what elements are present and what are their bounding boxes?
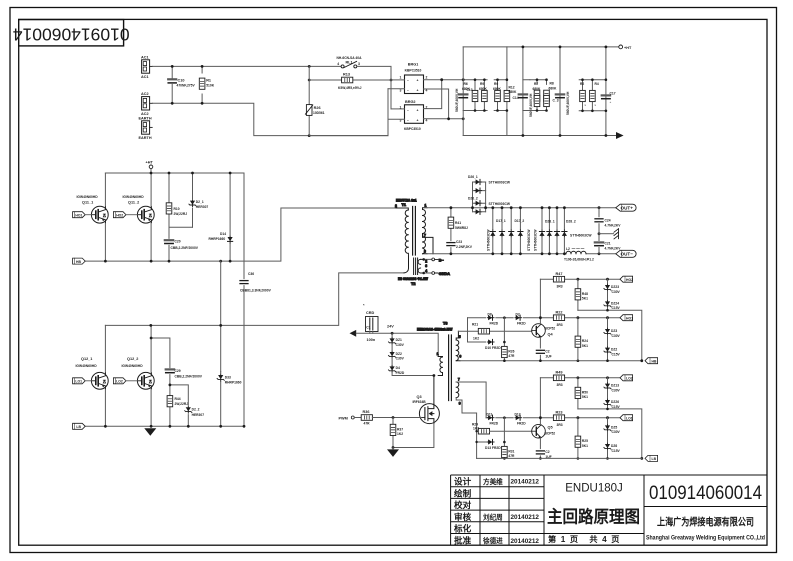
svg-text:010914060014: 010914060014 <box>649 482 762 504</box>
capacitor C24 <box>595 208 621 234</box>
svg-text:Q12_2: Q12_2 <box>127 357 138 361</box>
svg-text:FR2D: FR2D <box>517 422 526 426</box>
varistor R26 <box>305 80 324 136</box>
svg-text:5: 5 <box>459 335 461 339</box>
wire secondary bottom rail <box>427 253 616 255</box>
svg-text:AC1: AC1 <box>141 75 149 79</box>
svg-text:R24: R24 <box>582 339 588 343</box>
svg-text:LB: LB <box>76 425 81 429</box>
svg-text:C30V: C30V <box>612 388 621 392</box>
wire AC2 to bridge pin3 <box>309 89 388 136</box>
zener DZ26 <box>604 390 621 409</box>
svg-text:第 1 页 共 4 页: 第 1 页 共 4 页 <box>548 534 619 544</box>
mosfet Q3 <box>393 374 439 447</box>
IGBT Q12_1 <box>76 325 109 426</box>
resistor R9 <box>479 80 488 111</box>
svg-text:BCP52: BCP52 <box>545 432 556 436</box>
svg-text:DZ13: DZ13 <box>611 384 619 388</box>
wire BRG minus outputs <box>424 89 464 119</box>
svg-text:4.7NF,2KV: 4.7NF,2KV <box>605 223 622 227</box>
svg-text:C29: C29 <box>175 369 181 373</box>
resistor R8 <box>523 80 557 111</box>
diode D13 <box>485 439 501 449</box>
svg-text:R2: R2 <box>580 82 584 86</box>
svg-text:−: − <box>407 118 409 122</box>
svg-text:680K: 680K <box>479 87 488 91</box>
svg-text:STTH6003CW: STTH6003CW <box>534 229 538 251</box>
zener DZ6 <box>604 432 621 460</box>
wire DC rail left <box>462 47 464 136</box>
svg-text:3R3: 3R3 <box>557 284 563 288</box>
current transformer T2 <box>398 253 450 286</box>
svg-text:2: 2 <box>426 76 428 80</box>
svg-text:DZ26: DZ26 <box>611 400 619 404</box>
svg-text:47R: 47R <box>364 422 371 426</box>
svg-text:PWM: PWM <box>339 416 348 420</box>
svg-text:C20: C20 <box>175 240 181 244</box>
svg-text:5K1: 5K1 <box>582 444 588 448</box>
net label 24V <box>387 325 394 335</box>
svg-text:DZ2: DZ2 <box>396 352 402 356</box>
wire relay to bridge <box>357 66 391 109</box>
resistor R6 <box>462 80 478 111</box>
IGBT Q11_2 <box>123 173 155 261</box>
svg-text:D28_1: D28_1 <box>545 220 555 224</box>
wire half-bridge link <box>220 261 222 372</box>
diode D4 <box>389 358 434 375</box>
capacitor C5 <box>536 450 551 460</box>
diode D2_2 <box>170 385 204 426</box>
svg-text:R8: R8 <box>550 82 554 86</box>
svg-text:IRF634B: IRF634B <box>413 400 427 404</box>
svg-text:FR2D: FR2D <box>492 446 501 450</box>
svg-text:D2_1: D2_1 <box>196 200 204 204</box>
svg-text:+: + <box>417 108 419 112</box>
svg-text:D11: D11 <box>487 412 493 416</box>
resistor R10 <box>166 173 187 227</box>
IGBT Q11_1 <box>77 173 109 261</box>
resistor R37 <box>390 416 403 449</box>
wire lower collector rail <box>105 273 404 326</box>
junction dots group4 <box>581 78 607 112</box>
wire HT top rail <box>463 46 619 48</box>
wire BRG1 pin3 stub <box>388 88 405 90</box>
svg-text:LO1: LO1 <box>75 380 82 384</box>
svg-text:HO1: HO1 <box>626 317 633 321</box>
wire DC rail mid1 <box>522 47 524 136</box>
svg-text:47R: 47R <box>508 454 515 458</box>
capacitor C13 <box>455 88 473 112</box>
ground power <box>144 428 156 436</box>
svg-text:AC1: AC1 <box>141 55 149 59</box>
svg-text:1: 1 <box>400 76 402 80</box>
transistor Q5 <box>532 378 556 449</box>
svg-text:R7: R7 <box>534 82 538 86</box>
svg-text:STTH6003CW: STTH6003CW <box>489 202 511 206</box>
output rectifier D28_1 <box>539 208 554 254</box>
svg-text:−: − <box>407 89 409 93</box>
output rectifier D17_1 <box>486 208 506 254</box>
wire group4 buses <box>579 80 606 111</box>
svg-text:CRD: CRD <box>366 311 374 315</box>
junction dots secondary rails <box>450 206 601 255</box>
net flag LO2 gate Q12_2 <box>113 378 137 384</box>
resistor R50 <box>575 376 588 409</box>
svg-text:4: 4 <box>425 269 427 273</box>
svg-text:D26_1: D26_1 <box>468 175 478 179</box>
svg-text:R6: R6 <box>464 82 468 86</box>
svg-text:HO1: HO1 <box>75 213 82 217</box>
bridge rectifier BRG2 <box>400 100 428 131</box>
svg-text:R12: R12 <box>509 86 515 90</box>
resistor R2 <box>580 80 587 111</box>
capacitor C20 <box>165 227 199 261</box>
capacitor C21 <box>595 234 621 254</box>
svg-text:STTH6003CW: STTH6003CW <box>489 181 511 185</box>
diode D11 <box>487 412 499 425</box>
svg-text:审核: 审核 <box>454 511 472 522</box>
svg-text:10D561: 10D561 <box>313 111 325 115</box>
svg-text:EE65T2A 3x1: EE65T2A 3x1 <box>396 199 417 203</box>
svg-text:STTH6003CW: STTH6003CW <box>570 233 592 237</box>
resistor R49 <box>553 370 564 387</box>
svg-text:OUT−: OUT− <box>621 252 634 257</box>
svg-text:2W,22RJ: 2W,22RJ <box>175 402 189 406</box>
title block <box>451 475 767 545</box>
svg-text:D33: D33 <box>225 375 231 379</box>
svg-text:D26_2: D26_2 <box>468 197 478 201</box>
svg-text:6: 6 <box>459 355 461 359</box>
net label PWM <box>339 416 362 420</box>
svg-text:FR2D: FR2D <box>490 422 499 426</box>
svg-text:EE2806A6-4N26x0.5/W: EE2806A6-4N26x0.5/W <box>417 327 453 331</box>
svg-text:LO2: LO2 <box>116 380 123 384</box>
wire lower emitter rail <box>86 425 245 427</box>
zener DZ2b <box>604 335 621 362</box>
output rectifier D17_2 <box>509 208 538 254</box>
svg-text:680K: 680K <box>462 87 471 91</box>
svg-text:R10: R10 <box>174 207 180 211</box>
svg-text:DZ3: DZ3 <box>611 329 617 333</box>
svg-text:5W6R8J: 5W6R8J <box>455 226 468 230</box>
svg-text:C30V: C30V <box>612 334 621 338</box>
svg-text:680K: 680K <box>533 87 542 91</box>
net flag HO2 <box>620 276 633 282</box>
svg-text:20140212: 20140212 <box>511 538 540 545</box>
svg-text:3: 3 <box>424 250 426 254</box>
svg-text:7: 7 <box>458 377 460 381</box>
wire BRG1 pin1 stub <box>391 79 405 81</box>
svg-text:GNDA: GNDA <box>439 272 450 276</box>
arrow 24V feed <box>350 330 357 337</box>
svg-text:Q5: Q5 <box>548 425 553 429</box>
svg-text:R21: R21 <box>472 322 478 326</box>
svg-text:+: + <box>417 79 419 83</box>
resistor R25 <box>575 416 588 458</box>
svg-text:D12: D12 <box>515 412 521 416</box>
svg-text:DZ1: DZ1 <box>396 338 402 342</box>
svg-text:上海广为焊接电源有限公司: 上海广为焊接电源有限公司 <box>657 516 754 529</box>
svg-text:5K1: 5K1 <box>582 395 588 399</box>
svg-text:CBB,2.2NF/2000V: CBB,2.2NF/2000V <box>171 246 199 250</box>
resistor R22 <box>553 310 564 327</box>
svg-text:D17_2: D17_2 <box>515 219 525 223</box>
svg-text:EARTH: EARTH <box>139 136 152 140</box>
net flag HO1 gate Q11_1 <box>73 212 92 218</box>
wire upper emitter rail <box>86 208 397 261</box>
svg-text:IGW40N60HD: IGW40N60HD <box>77 195 99 199</box>
diode D8 <box>487 312 498 325</box>
svg-text:设计: 设计 <box>454 476 472 487</box>
wire HO2 line <box>540 278 620 280</box>
diode D2_1 <box>189 173 209 227</box>
net flag HO1 <box>620 315 633 321</box>
svg-text:R23: R23 <box>556 410 563 414</box>
capacitor C_3 <box>553 91 570 115</box>
svg-text:R41: R41 <box>455 221 461 225</box>
svg-text:DZ6: DZ6 <box>611 444 617 448</box>
svg-text:7: 7 <box>424 234 426 238</box>
wire 24V rail <box>356 333 438 356</box>
svg-text:R1: R1 <box>206 79 211 83</box>
svg-text:DZ24: DZ24 <box>611 301 619 305</box>
svg-text:R47: R47 <box>556 272 563 276</box>
svg-text:KBPC3510: KBPC3510 <box>405 69 422 73</box>
zener DZ3 <box>604 316 621 337</box>
svg-text:BCP52: BCP52 <box>545 326 556 330</box>
net flag HO2 gate Q11_2 <box>113 212 137 218</box>
svg-text:NH-6CN-SA 40A: NH-6CN-SA 40A <box>337 56 363 60</box>
svg-text:R4: R4 <box>595 82 599 86</box>
svg-text:R36: R36 <box>363 410 370 414</box>
svg-text:+: + <box>417 118 419 122</box>
svg-text:20140212: 20140212 <box>511 514 540 521</box>
IGBT Q12_2 <box>122 325 155 426</box>
svg-text:C15V: C15V <box>612 352 621 356</box>
svg-text:R37: R37 <box>397 427 403 431</box>
resistor R13 inrush <box>309 72 391 90</box>
svg-text:D2: D2 <box>516 312 520 316</box>
wire group1 bottom bus <box>463 110 487 112</box>
svg-text:R49: R49 <box>556 370 563 374</box>
svg-text:批准: 批准 <box>454 534 472 545</box>
junction dots group1 <box>474 78 486 111</box>
svg-text:1K2: 1K2 <box>397 432 403 436</box>
svg-text:560UF,400V,VH: 560UF,400V,VH <box>529 93 533 117</box>
capacitor C29 <box>151 338 203 385</box>
svg-text:3: 3 <box>358 62 360 66</box>
svg-text:IGW40N60HD: IGW40N60HD <box>76 364 98 368</box>
junction dots lower rails <box>104 324 245 428</box>
capacitor C10 <box>168 66 195 103</box>
net flag LO1 <box>620 415 633 421</box>
wire DC rail right <box>605 47 607 136</box>
capacitor C2 <box>536 349 551 362</box>
svg-text:20140212: 20140212 <box>511 479 540 486</box>
svg-text:560UF,400V,VH: 560UF,400V,VH <box>455 88 459 112</box>
svg-text:C36: C36 <box>248 272 254 276</box>
svg-text:LO2: LO2 <box>626 377 633 381</box>
svg-text:RL1: RL1 <box>346 61 353 65</box>
junction dots group3 <box>536 78 548 111</box>
wire BRG2 pin3 stub <box>388 118 405 120</box>
wire HO1 line <box>468 317 621 319</box>
svg-text:AC2: AC2 <box>141 92 149 96</box>
svg-text:C14: C14 <box>513 96 519 100</box>
snubber module CRD C1 <box>363 303 378 342</box>
svg-text:C21: C21 <box>605 241 611 245</box>
ground aux <box>387 448 399 457</box>
wire AC2 line <box>153 103 388 135</box>
resistor R36 <box>361 410 421 425</box>
svg-text:R13: R13 <box>343 72 350 76</box>
svg-text:C2: C2 <box>545 349 549 353</box>
net flag OUT+ <box>616 204 636 211</box>
wire HB corner <box>578 310 642 361</box>
svg-text:D4: D4 <box>396 366 400 370</box>
zener DZ1 <box>389 333 405 347</box>
svg-text:DZ23: DZ23 <box>611 285 619 289</box>
resistor R47 <box>553 272 564 289</box>
resistor R26 <box>502 316 515 362</box>
svg-text:DZ2: DZ2 <box>611 348 617 352</box>
svg-text:刘纪周: 刘纪周 <box>483 512 503 521</box>
wire BRG plus outputs <box>424 80 488 109</box>
resistor R48 <box>575 278 588 310</box>
svg-text:D28_2: D28_2 <box>566 220 576 224</box>
svg-text:C30V: C30V <box>396 343 405 347</box>
svg-text:OUT+: OUT+ <box>621 206 634 211</box>
svg-text:H3 60A6266 Φ1.2W: H3 60A6266 Φ1.2W <box>398 277 429 281</box>
svg-text:L2: L2 <box>566 247 570 251</box>
svg-text:010914060014: 010914060014 <box>13 25 130 45</box>
capacitor C36 bus snubber <box>240 272 272 293</box>
svg-text:Q12_1: Q12_1 <box>81 357 92 361</box>
junction dots upper rails <box>104 172 232 263</box>
svg-text:R9: R9 <box>494 82 498 86</box>
svg-text:EARTH: EARTH <box>139 116 152 120</box>
svg-text:方美维: 方美维 <box>483 477 503 486</box>
svg-text:2W,22RJ: 2W,22RJ <box>174 212 188 216</box>
diode D14 <box>209 173 233 261</box>
svg-text:K5W,4R5,±5%J: K5W,4R5,±5%J <box>338 86 362 90</box>
resistor R12 <box>504 80 517 111</box>
capacitor C14 <box>513 93 533 117</box>
wire group2 buses <box>494 47 507 136</box>
svg-text:R44: R44 <box>175 397 181 401</box>
diode D12 <box>515 412 527 425</box>
wire upper block left tie <box>468 318 486 342</box>
svg-text:R22: R22 <box>556 310 563 314</box>
svg-text:+HT: +HT <box>624 46 632 50</box>
svg-text:绘制: 绘制 <box>454 487 472 498</box>
resistor R21 <box>472 322 490 340</box>
svg-text:C30V: C30V <box>612 290 621 294</box>
svg-text:2: 2 <box>425 259 427 263</box>
svg-text:4.7NF,2KV: 4.7NF,2KV <box>605 246 622 250</box>
resistor R24 <box>575 316 588 360</box>
wire lower block bottom rail <box>477 457 642 459</box>
transistor Q4 <box>532 279 556 348</box>
svg-text:3R3: 3R3 <box>557 383 563 387</box>
terminal +HT <box>619 45 632 50</box>
svg-text:1K2: 1K2 <box>473 337 479 341</box>
svg-text:AC2: AC2 <box>141 112 149 116</box>
wire upper collector rail <box>105 172 244 174</box>
svg-text:IGW40N60HD: IGW40N60HD <box>123 195 145 199</box>
svg-text:510K: 510K <box>206 83 215 87</box>
zener DZ24 <box>604 291 621 310</box>
svg-text:680K: 680K <box>549 86 558 90</box>
svg-text:FR2D: FR2D <box>396 371 405 375</box>
svg-text:R50: R50 <box>582 390 588 394</box>
svg-text:+: + <box>417 89 419 93</box>
capacitor C17 <box>602 92 616 105</box>
svg-text:2.2NF,2KV: 2.2NF,2KV <box>456 245 473 249</box>
svg-text:D10: D10 <box>485 346 491 350</box>
svg-text:560UF,400V,VH: 560UF,400V,VH <box>566 91 570 115</box>
svg-text:C_3: C_3 <box>553 99 559 103</box>
svg-text:5K1: 5K1 <box>582 297 588 301</box>
svg-text:徐德进: 徐德进 <box>482 536 503 545</box>
svg-text:ENDU180J: ENDU180J <box>565 483 623 495</box>
svg-text:C10: C10 <box>178 79 185 83</box>
svg-text:B−: B− <box>439 258 445 262</box>
svg-text:HO2: HO2 <box>116 213 123 217</box>
snubber resistor R41 <box>448 208 468 241</box>
svg-text:+HT: +HT <box>146 161 154 165</box>
svg-text:标化: 标化 <box>453 523 472 534</box>
svg-text:D14: D14 <box>220 232 226 236</box>
svg-text:680K: 680K <box>493 87 502 91</box>
terminal +HT bus <box>146 161 154 174</box>
wire AC1 line <box>153 65 341 67</box>
svg-text:T3: T3 <box>443 322 447 326</box>
svg-text:1: 1 <box>425 203 427 207</box>
svg-text:DZ5: DZ5 <box>611 425 617 429</box>
svg-text:R31: R31 <box>508 449 514 453</box>
svg-text:100n: 100n <box>367 338 376 342</box>
chassis ground output <box>599 229 619 239</box>
svg-text:LB: LB <box>652 457 657 461</box>
resistor R23 <box>553 410 564 427</box>
transformer T1 <box>395 199 433 256</box>
svg-text:C15V: C15V <box>612 449 621 453</box>
resistor R1 <box>199 66 214 103</box>
svg-text:−: − <box>407 108 409 112</box>
junction dots bridge outputs <box>440 78 464 120</box>
svg-text:5K1: 5K1 <box>582 344 588 348</box>
net flag OUT- <box>616 250 636 257</box>
svg-text:1K2: 1K2 <box>473 427 479 431</box>
svg-text:RHRP1660: RHRP1660 <box>209 237 226 241</box>
resistor R7 <box>530 80 547 111</box>
arrow minus rail <box>616 132 624 139</box>
net flag B- left <box>73 423 86 429</box>
output rectifier D28_2 <box>554 208 592 254</box>
svg-text:Shanghai Greatway Welding Equi: Shanghai Greatway Welding Equipment CO.,… <box>646 535 765 542</box>
svg-text:4: 4 <box>337 62 339 66</box>
svg-text:D8: D8 <box>488 312 492 316</box>
inductor L2 <box>564 247 594 261</box>
svg-text:680K: 680K <box>509 90 518 94</box>
wire LO2 line <box>540 377 620 379</box>
svg-text:校对: 校对 <box>454 499 472 510</box>
svg-text:STTH6003CW: STTH6003CW <box>527 229 531 251</box>
connector AC2 <box>141 92 153 116</box>
svg-text:1: 1 <box>437 352 439 356</box>
svg-text:Q4: Q4 <box>548 332 554 336</box>
